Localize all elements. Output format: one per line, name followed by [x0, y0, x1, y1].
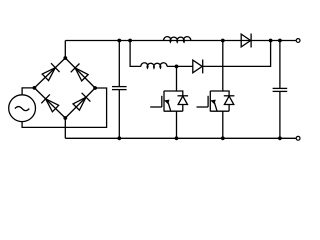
- wire V1 top to bridge left node: [22, 88, 34, 95]
- terminal output +: [296, 39, 300, 43]
- node bridge right (AC in): [93, 86, 97, 90]
- wire D5 to top rail riser: [203, 41, 271, 67]
- node Q1 drain on lower branch: [175, 65, 179, 69]
- diode D1 (bridge, left node to top node): [34, 58, 65, 88]
- body diode of Q2: [223, 91, 235, 111]
- wire L2 to D5: [167, 65, 193, 67]
- wire bottom rail: [65, 137, 296, 139]
- AC source V1: [9, 95, 36, 122]
- terminal output -: [296, 136, 300, 140]
- diode D4 (bridge, bottom node to right node): [65, 88, 95, 118]
- wire top rail: [65, 40, 296, 42]
- node C1 top: [117, 39, 121, 43]
- diode D6: [241, 34, 251, 48]
- capacitor C2: [273, 41, 288, 139]
- diode D2 (bridge, right node to top node): [65, 58, 95, 88]
- node Q1 source on bottom rail: [175, 136, 179, 140]
- node C2 bottom: [278, 136, 282, 140]
- wire bridge top lead: [64, 41, 66, 59]
- inductor L2: [141, 63, 167, 68]
- transistor Q2 (N-MOSFET): [197, 41, 230, 139]
- node bridge top (+): [63, 56, 67, 60]
- diode D5: [193, 60, 203, 74]
- wire V1 bottom return to bridge right node: [22, 88, 107, 127]
- transistor Q1 (N-MOSFET): [150, 66, 183, 138]
- diode D3 (bridge, bottom node to left node): [34, 88, 65, 118]
- body diode of Q1: [177, 91, 189, 111]
- node bridge left (AC in): [33, 86, 37, 90]
- inductor L1: [164, 37, 191, 43]
- node riser joins top rail: [269, 39, 273, 43]
- node C1 bottom: [117, 136, 121, 140]
- node Q2 drain on top rail: [221, 39, 225, 43]
- node lower branch tap: [128, 39, 132, 43]
- capacitor C1: [112, 41, 127, 139]
- wire bridge bottom lead: [64, 118, 66, 138]
- wire lower branch drop: [130, 41, 141, 67]
- node bridge bottom (-): [63, 116, 67, 120]
- node C2 top: [278, 39, 282, 43]
- node Q2 source on bottom rail: [221, 136, 225, 140]
